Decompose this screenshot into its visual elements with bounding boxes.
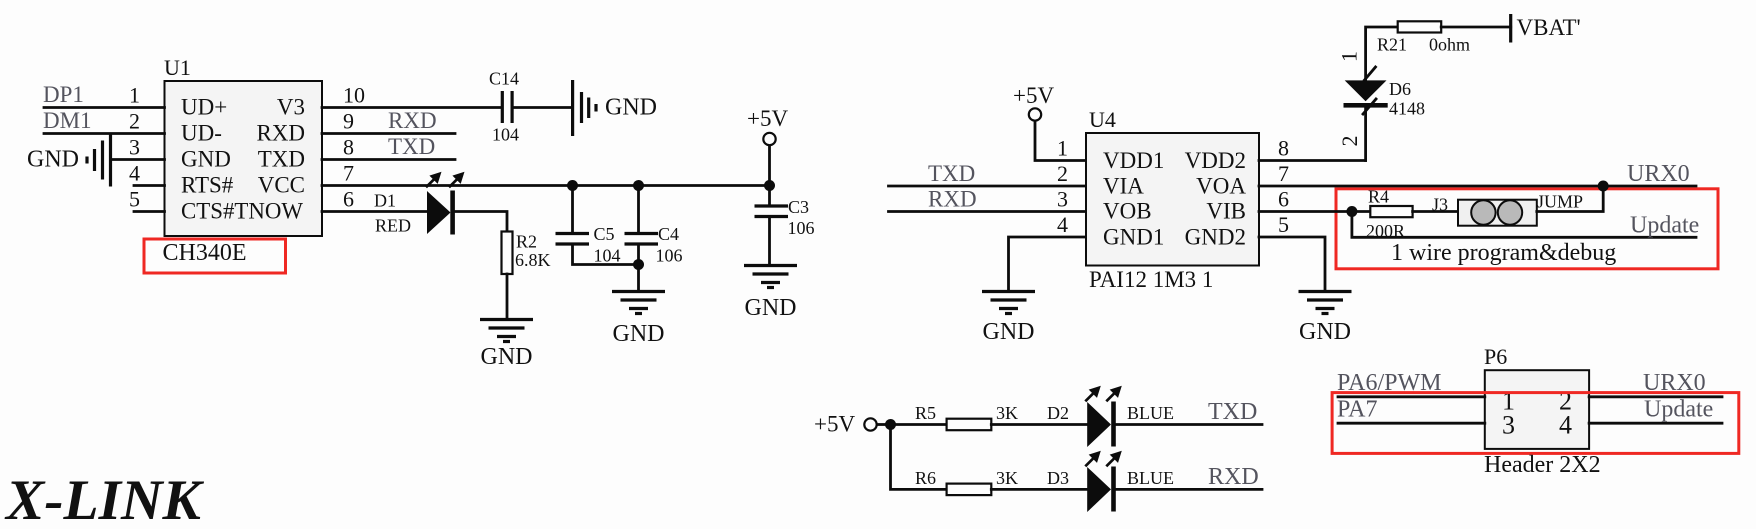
svg-text:J3: J3 — [1432, 195, 1448, 215]
svg-text:VOA: VOA — [1196, 174, 1246, 199]
wire U4 pin7 URX0 rail — [1259, 185, 1696, 188]
chip U1 body — [165, 81, 323, 236]
diode D6 — [1344, 67, 1426, 119]
wire C14 to ground — [513, 106, 573, 109]
power +5V at U4 — [1013, 83, 1054, 121]
svg-text:RTS#: RTS# — [181, 173, 234, 198]
svg-text:GND: GND — [181, 147, 231, 172]
svg-text:PA6/PWM: PA6/PWM — [1337, 370, 1441, 396]
wire P6 pin4 to Update — [1589, 422, 1722, 425]
svg-text:JUMP: JUMP — [1537, 192, 1583, 212]
ground GND below C4 — [612, 292, 665, 348]
ground GND below R2 — [480, 320, 533, 371]
svg-text:V3: V3 — [277, 95, 305, 120]
svg-text:4: 4 — [1559, 411, 1572, 440]
wire pin6 to D1 — [322, 210, 428, 213]
svg-text:8: 8 — [1278, 136, 1289, 161]
power +5V at C3 — [747, 106, 788, 145]
svg-text:TXD: TXD — [928, 161, 975, 186]
ground GND below U4 pin4 — [982, 292, 1035, 346]
capacitor C3 — [755, 197, 815, 238]
svg-text:VIA: VIA — [1103, 174, 1144, 199]
svg-text:1 wire program&debug: 1 wire program&debug — [1391, 240, 1616, 266]
wire R21 to VBAT — [1441, 26, 1511, 29]
svg-text:VBAT': VBAT' — [1517, 15, 1581, 40]
svg-text:UD+: UD+ — [181, 95, 227, 120]
svg-text:R5: R5 — [915, 403, 936, 423]
svg-text:1: 1 — [129, 83, 140, 108]
svg-text:2: 2 — [129, 109, 140, 134]
svg-text:2: 2 — [1057, 161, 1068, 186]
red box 1-wire program&debug — [1336, 189, 1718, 269]
wire to R5 — [891, 423, 947, 426]
wire P6 pin2 to URX0 — [1589, 395, 1722, 398]
terminal VBAT — [1511, 14, 1581, 43]
svg-text:R21: R21 — [1377, 35, 1407, 55]
svg-text:1: 1 — [1057, 136, 1068, 161]
svg-text:DP1: DP1 — [43, 82, 84, 107]
resistor R2 — [502, 232, 551, 275]
wire PA7 to P6 pin3 — [1338, 422, 1485, 425]
wire Update line — [1352, 212, 1696, 238]
svg-text:C14: C14 — [489, 69, 519, 89]
svg-text:GND: GND — [605, 95, 657, 121]
svg-text:104: 104 — [594, 246, 621, 266]
svg-text:VCC: VCC — [258, 173, 305, 198]
svg-text:VDD2: VDD2 — [1185, 148, 1246, 173]
wire D3 to RXD — [1116, 488, 1262, 491]
svg-text:CTS#TNOW: CTS#TNOW — [181, 199, 303, 224]
resistor R21 — [1377, 21, 1470, 54]
wire pin2 U1 — [44, 132, 165, 135]
svg-text:106: 106 — [788, 218, 815, 238]
svg-text:P6: P6 — [1484, 344, 1507, 369]
wire U4 pin6 to R4 — [1259, 210, 1371, 213]
LED D1 — [426, 172, 465, 235]
wire R5 to D2 — [991, 423, 1088, 426]
svg-text:9: 9 — [343, 109, 354, 134]
svg-text:104: 104 — [492, 125, 519, 145]
junction on VCC at C5 — [567, 180, 578, 191]
jumper J3 — [1458, 192, 1583, 226]
svg-text:8: 8 — [343, 135, 354, 160]
value CH340E red box — [144, 239, 286, 273]
wire pin8 TXD stub — [322, 158, 455, 161]
svg-text:R2: R2 — [516, 232, 537, 252]
svg-text:VIB: VIB — [1206, 199, 1246, 224]
svg-text:6: 6 — [1278, 187, 1289, 212]
svg-text:C4: C4 — [658, 224, 679, 244]
wire U4 pin8 to D6 — [1259, 159, 1366, 162]
svg-text:3K: 3K — [996, 403, 1018, 423]
svg-text:CH340E: CH340E — [163, 240, 247, 266]
svg-text:PAI12 1M3 1: PAI12 1M3 1 — [1089, 267, 1213, 292]
wire +5V stub — [878, 423, 891, 426]
svg-text:6: 6 — [343, 187, 354, 212]
wire +5V to U4 pin1 — [1035, 123, 1086, 161]
resistor R4 — [1366, 187, 1413, 242]
LED D3 — [1085, 451, 1122, 512]
svg-text:R4: R4 — [1368, 187, 1389, 207]
wire D1 cathode to R2 — [455, 212, 507, 232]
wire C3 to ground — [768, 217, 771, 265]
wire pin10 V3 to C14 — [322, 106, 502, 109]
resistor R5 — [915, 403, 1018, 430]
wire pin1 U1 — [44, 106, 165, 109]
svg-text:Header 2X2: Header 2X2 — [1484, 452, 1601, 478]
svg-text:0ohm: 0ohm — [1429, 35, 1470, 55]
svg-text:GND: GND — [745, 295, 797, 321]
svg-text:D3: D3 — [1047, 468, 1069, 488]
svg-text:1: 1 — [1337, 51, 1362, 62]
svg-text:D6: D6 — [1389, 79, 1411, 99]
svg-text:106: 106 — [656, 246, 683, 266]
svg-text:GND: GND — [27, 147, 79, 173]
svg-text:4: 4 — [129, 161, 140, 186]
svg-text:U1: U1 — [164, 55, 191, 80]
svg-text:GND: GND — [983, 319, 1035, 345]
svg-text:D2: D2 — [1047, 403, 1069, 423]
wire TXD to U4 pin2 — [889, 185, 1087, 188]
svg-text:UD-: UD- — [181, 121, 222, 146]
svg-text:4: 4 — [1057, 212, 1068, 237]
wire pin3 U1 — [111, 158, 165, 161]
svg-text:D1: D1 — [374, 191, 396, 211]
svg-text:GND: GND — [481, 344, 533, 370]
resistor R6 — [915, 468, 1018, 495]
junction VCC at +5V — [764, 180, 775, 191]
svg-text:3: 3 — [129, 135, 140, 160]
svg-text:3: 3 — [1057, 187, 1068, 212]
wire pin5 U1 stub — [134, 210, 165, 213]
svg-text:3: 3 — [1502, 411, 1515, 440]
wire R2 to ground — [506, 274, 509, 318]
wire C4 to ground — [637, 244, 640, 290]
svg-text:GND1: GND1 — [1103, 225, 1164, 250]
svg-text:7: 7 — [343, 161, 354, 186]
wire U4 pin5 to ground — [1259, 237, 1325, 290]
svg-text:PA7: PA7 — [1337, 397, 1377, 423]
svg-text:X-LINK: X-LINK — [4, 469, 205, 529]
svg-text:4148: 4148 — [1389, 99, 1425, 119]
wire RXD to U4 pin3 — [889, 210, 1087, 213]
svg-text:5: 5 — [129, 187, 140, 212]
svg-text:5: 5 — [1278, 212, 1289, 237]
svg-text:BLUE: BLUE — [1127, 468, 1174, 488]
junction +5V split — [885, 419, 896, 430]
svg-text:TXD: TXD — [1208, 399, 1257, 425]
wire R4 to J3 — [1413, 210, 1458, 213]
svg-text:3K: 3K — [996, 468, 1018, 488]
svg-text:6.8K: 6.8K — [515, 250, 551, 270]
capacitor C14 — [489, 69, 519, 145]
svg-text:+5V: +5V — [1013, 83, 1054, 108]
junction pin6 R4 — [1346, 206, 1357, 217]
svg-text:10: 10 — [343, 83, 365, 108]
svg-text:URX0: URX0 — [1643, 370, 1706, 396]
svg-text:RXD: RXD — [928, 187, 977, 212]
svg-text:VDD1: VDD1 — [1103, 148, 1164, 173]
ground GND below U4 pin5 — [1299, 292, 1352, 346]
wire C5 bottom to C4 bottom — [573, 244, 639, 265]
ground GND right of C14 — [573, 80, 657, 136]
svg-text:DM1: DM1 — [43, 108, 92, 133]
chip U4 body — [1086, 133, 1259, 266]
svg-text:GND2: GND2 — [1185, 225, 1246, 250]
wire D2 to TXD — [1116, 423, 1262, 426]
svg-text:2: 2 — [1337, 136, 1362, 147]
svg-text:+5V: +5V — [814, 412, 855, 437]
wire +5V to VCC rail — [768, 146, 771, 206]
svg-text:RXD: RXD — [256, 121, 305, 146]
svg-text:URX0: URX0 — [1627, 161, 1690, 187]
wire U4 pin4 to ground — [1009, 237, 1087, 290]
capacitor C5 — [556, 224, 621, 266]
svg-text:RXD: RXD — [388, 108, 437, 133]
wire pin7 VCC rail — [322, 184, 770, 187]
wire pin4 U1 stub — [134, 184, 165, 187]
wire D6 anode to R21 — [1366, 27, 1398, 80]
wire VCC to C4 — [637, 186, 640, 234]
svg-text:TXD: TXD — [258, 147, 305, 172]
svg-text:BLUE: BLUE — [1127, 403, 1174, 423]
svg-text:GND: GND — [1299, 319, 1351, 345]
svg-text:+5V: +5V — [747, 106, 788, 131]
wire R6 to D3 — [991, 488, 1088, 491]
red box header P6 — [1332, 393, 1739, 454]
junction C4/C5 bottom — [633, 259, 644, 270]
svg-text:Update: Update — [1644, 397, 1713, 423]
wire J3 to URX0 rail — [1537, 186, 1603, 212]
svg-text:VOB: VOB — [1103, 199, 1152, 224]
power +5V at LEDs — [814, 412, 877, 437]
svg-text:TXD: TXD — [388, 134, 435, 159]
svg-text:R6: R6 — [915, 468, 936, 488]
svg-text:7: 7 — [1278, 161, 1289, 186]
svg-text:Update: Update — [1630, 213, 1699, 239]
ground GND below C3 — [744, 266, 797, 322]
svg-text:RXD: RXD — [1208, 464, 1259, 490]
wire VCC to C5 — [571, 186, 574, 234]
junction URX0 — [1598, 181, 1609, 192]
capacitor C4 — [625, 224, 683, 266]
ground GND left of U1 — [27, 134, 111, 187]
svg-text:C3: C3 — [788, 197, 809, 217]
svg-text:C5: C5 — [594, 224, 615, 244]
wire PA6/PWM to P6 pin1 — [1338, 395, 1485, 398]
wire pin9 RXD stub — [322, 132, 455, 135]
LED D2 — [1085, 386, 1122, 447]
wire D6 cathode to U4 pin8 node — [1364, 107, 1367, 161]
svg-text:GND: GND — [613, 321, 665, 347]
wire +5V down to R6 row — [891, 425, 947, 490]
junction on VCC at C4 — [633, 180, 644, 191]
connector P6 — [1485, 370, 1589, 449]
svg-text:RED: RED — [375, 216, 411, 236]
svg-text:U4: U4 — [1089, 107, 1116, 132]
